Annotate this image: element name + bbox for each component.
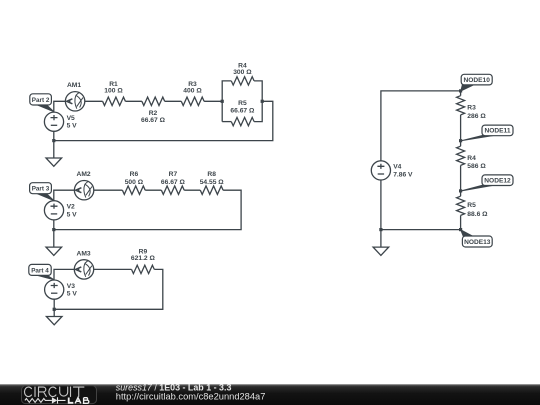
svg-text:500 Ω: 500 Ω — [125, 179, 144, 186]
svg-text:AM3: AM3 — [77, 250, 91, 257]
svg-text:V4: V4 — [393, 164, 401, 171]
svg-text:V3: V3 — [67, 283, 75, 290]
wire R1 to R2 — [125, 100, 141, 102]
wire V2 top to AM2 — [54, 190, 74, 201]
node right of parallel block — [261, 100, 264, 103]
wire R4 to node12 — [460, 165, 462, 196]
wire bottom rail — [381, 229, 461, 231]
callout Part 4 — [36, 275, 54, 280]
wire V2 bottom to ground — [53, 220, 55, 247]
wire R5 to bottom rail — [460, 215, 462, 229]
resistor R9 — [132, 265, 155, 273]
callout NODE10 — [461, 84, 475, 91]
svg-text:R4: R4 — [467, 155, 476, 162]
resistor R5 (right) — [457, 196, 465, 215]
ammeter AM1 — [65, 92, 84, 111]
node V4 bottom — [379, 228, 382, 231]
wire AM3 to R9 — [94, 268, 132, 270]
svg-text:5 V: 5 V — [67, 291, 78, 298]
wire R4 to right branch — [254, 81, 262, 101]
resistor R6 — [122, 186, 145, 194]
resistor R5 (parallel bottom) — [231, 117, 254, 125]
callout Part 3 — [36, 193, 54, 200]
wire return loop part2 — [54, 101, 273, 140]
voltage source V5 — [44, 112, 63, 131]
wire R7 to R8 — [184, 189, 200, 191]
wire V5 top to AM1 — [54, 101, 66, 112]
callout NODE12 — [461, 185, 495, 191]
footer bar background — [0, 384, 540, 405]
resistor R7 — [161, 186, 184, 194]
svg-text:586 Ω: 586 Ω — [467, 163, 486, 170]
svg-text:R5: R5 — [238, 100, 247, 107]
svg-text:V2: V2 — [67, 204, 75, 211]
svg-text:100 Ω: 100 Ω — [104, 87, 123, 94]
logo CIRCUIT text — [24, 387, 83, 397]
logo button border — [22, 386, 97, 404]
wire R5 to right branch — [254, 101, 262, 121]
svg-text:R3: R3 — [467, 104, 476, 111]
wire V3 top to AM3 — [54, 269, 74, 280]
callout Part 2 — [36, 104, 54, 111]
node left of parallel block — [221, 100, 224, 103]
svg-text:R6: R6 — [130, 171, 139, 178]
node NODE13 junction — [459, 228, 462, 231]
parallel block bottom-left wire — [222, 121, 231, 123]
svg-text:66.67 Ω: 66.67 Ω — [230, 107, 255, 114]
svg-text:Part 2: Part 2 — [32, 97, 50, 104]
svg-text:66.67 Ω: 66.67 Ω — [161, 179, 186, 186]
svg-text:5 V: 5 V — [67, 123, 78, 130]
wire AM2 to R6 — [94, 189, 123, 191]
wire V3 bottom to ground — [53, 299, 55, 317]
parallel block left branch wire — [222, 81, 231, 122]
node NODE12 junction — [459, 189, 462, 192]
node bottom part4 — [53, 308, 56, 311]
svg-text:300 Ω: 300 Ω — [233, 69, 252, 76]
wire R3 to node11 — [460, 115, 462, 146]
resistor R3 (right) — [457, 96, 465, 115]
svg-text:AM2: AM2 — [77, 171, 91, 178]
wire V4 bottom to ground — [380, 180, 382, 247]
node bottom part2 — [52, 139, 55, 142]
svg-text:7.86 V: 7.86 V — [393, 171, 413, 178]
ground part3 — [46, 247, 62, 255]
ammeter AM3 — [74, 260, 93, 279]
voltage source V2 — [44, 201, 63, 220]
wire node10 to R3 — [460, 91, 462, 96]
svg-text:R7: R7 — [169, 171, 178, 178]
svg-text:NODE12: NODE12 — [484, 178, 511, 185]
callout NODE11 — [461, 135, 495, 141]
svg-text:286 Ω: 286 Ω — [467, 113, 486, 120]
wire R6 to R7 — [145, 189, 161, 191]
wire top rail V4 to node chain — [381, 91, 461, 161]
voltage source V3 — [45, 280, 64, 299]
ammeter AM2 — [74, 181, 93, 200]
wire return loop part3 — [54, 190, 241, 229]
wire return loop part4 — [54, 269, 163, 309]
resistor R4 (right) — [457, 146, 465, 165]
node bottom part3 — [52, 228, 55, 231]
svg-text:AM1: AM1 — [67, 82, 81, 89]
resistor R1 — [103, 97, 126, 105]
logo resistor zigzag — [25, 399, 52, 403]
svg-text:http://circuitlab.com/c8e2unnd: http://circuitlab.com/c8e2unnd284a7 — [116, 391, 266, 401]
node NODE11 junction — [459, 139, 462, 142]
ground part4 — [46, 317, 62, 325]
resistor R2 — [142, 97, 165, 105]
svg-text:400 Ω: 400 Ω — [183, 87, 202, 94]
svg-text:R5: R5 — [467, 202, 476, 209]
wire R3 to parallel node — [204, 100, 222, 102]
wire AM1 to R1 — [85, 100, 103, 102]
ground V4 — [373, 247, 389, 255]
voltage source V4 — [371, 161, 390, 180]
wire V5 bottom to ground — [53, 131, 55, 158]
callout NODE13 — [461, 230, 476, 238]
svg-text:V5: V5 — [67, 115, 75, 122]
wire R2 to R3 — [165, 100, 182, 102]
svg-text:R8: R8 — [207, 171, 216, 178]
node NODE10 junction — [459, 89, 462, 92]
logo diode — [52, 397, 57, 403]
svg-text:54.55 Ω: 54.55 Ω — [200, 179, 225, 186]
resistor R8 — [200, 186, 223, 194]
svg-text:NODE11: NODE11 — [484, 128, 510, 135]
svg-text:Part 4: Part 4 — [31, 267, 49, 274]
svg-text:NODE10: NODE10 — [464, 77, 491, 84]
svg-text:66.67 Ω: 66.67 Ω — [141, 117, 166, 124]
svg-text:NODE13: NODE13 — [464, 239, 491, 246]
svg-text:621.2 Ω: 621.2 Ω — [131, 255, 156, 262]
resistor R4 (parallel top) — [231, 77, 254, 85]
ground part2 — [46, 158, 62, 166]
svg-text:Part 3: Part 3 — [32, 186, 50, 193]
svg-text:5 V: 5 V — [67, 211, 78, 218]
logo LAB text — [69, 398, 89, 404]
resistor R3 (left) — [181, 97, 204, 105]
svg-text:88.6 Ω: 88.6 Ω — [467, 211, 488, 218]
